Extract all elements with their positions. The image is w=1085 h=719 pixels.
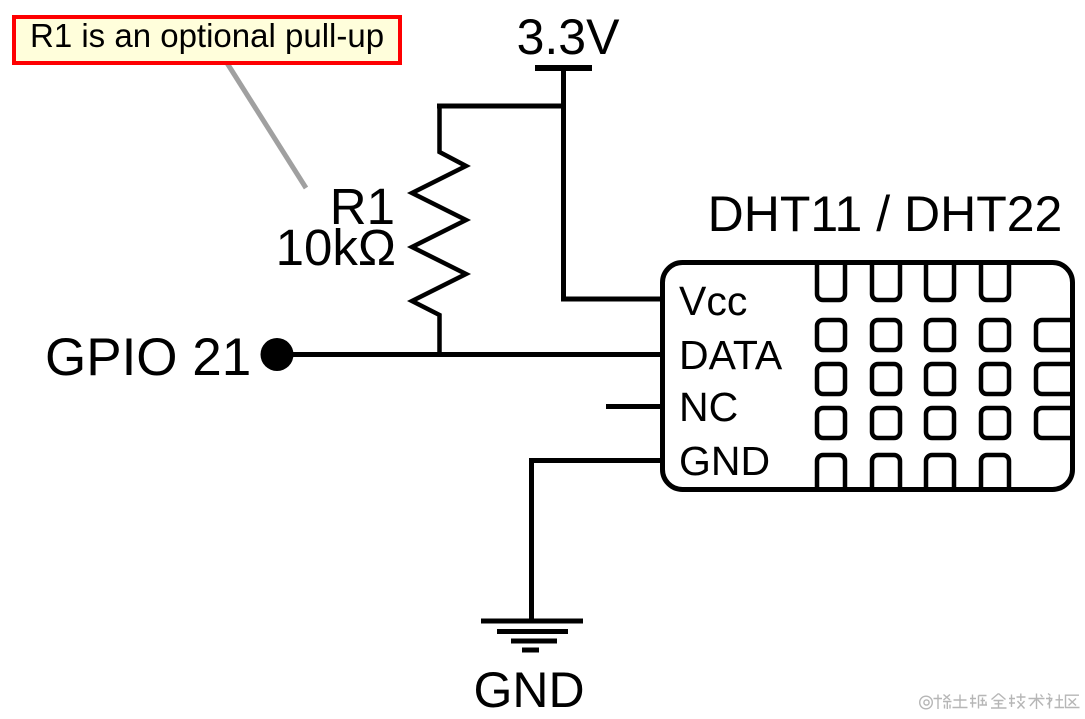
- row 2 vents: [817, 320, 845, 350]
- wire GND pin to ground symbol: [532, 461, 663, 620]
- svg-text:GPIO 21: GPIO 21: [45, 328, 251, 387]
- row 3 vents: [817, 364, 845, 394]
- row 5 vents: [817, 455, 845, 507]
- power rail 3.3V bar: [535, 65, 592, 71]
- svg-text:R1 is an optional pull-up: R1 is an optional pull-up: [30, 17, 384, 54]
- svg-text:GND: GND: [473, 662, 584, 718]
- wire 3.3V rail down to Vcc pin: [564, 70, 663, 299]
- row 4 vents: [817, 408, 845, 438]
- svg-text:DHT11 / DHT22: DHT11 / DHT22: [708, 186, 1063, 242]
- wire NC stub: [606, 404, 662, 409]
- watermark @稀土掘金技术社区: [920, 694, 1080, 710]
- wire GPIO 21 to DATA pin: [277, 352, 662, 357]
- row 1 vents: [817, 248, 845, 300]
- callout leader line: [227, 63, 306, 188]
- svg-text:Vcc: Vcc: [679, 278, 747, 324]
- callout note box: [14, 17, 400, 63]
- svg-text:3.3V: 3.3V: [517, 9, 621, 65]
- ground symbol: [481, 621, 583, 650]
- resistor R1: [412, 104, 466, 355]
- DHT11/DHT22 sensor body: [663, 263, 1073, 490]
- svg-text:10kΩ: 10kΩ: [276, 219, 396, 276]
- svg-text:GND: GND: [679, 438, 770, 484]
- wire resistor top to 3.3V vertical: [437, 104, 564, 109]
- svg-text:DATA: DATA: [679, 332, 783, 378]
- sensor vent hole grid: [817, 248, 1085, 507]
- svg-text:NC: NC: [679, 384, 738, 430]
- node GPIO 21 junction dot: [261, 338, 294, 371]
